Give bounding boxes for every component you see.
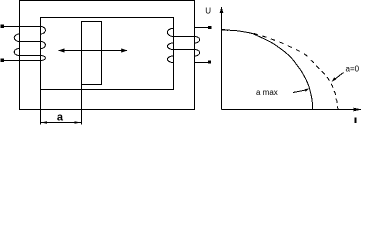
svg-text:a max: a max bbox=[256, 88, 278, 97]
coil L2 terminal lead bottom bbox=[195, 61, 209, 63]
label a max bbox=[256, 88, 278, 97]
core outer outline bbox=[20, 1, 195, 110]
curve a max (solid) bbox=[222, 30, 313, 109]
coil L2 back half-turns inner edge bbox=[167, 28, 173, 62]
svg-text:a: a bbox=[57, 112, 64, 124]
I axis bbox=[222, 108, 362, 112]
coil L1 terminal lead top bbox=[3, 26, 41, 28]
label I bbox=[355, 118, 357, 124]
curve a=0 (dashed) bbox=[254, 33, 339, 109]
U axis bbox=[220, 6, 224, 109]
movable shunt bar bbox=[82, 22, 102, 85]
pointer arrow to curve a max bbox=[293, 88, 309, 92]
dimension line a bbox=[41, 121, 82, 124]
svg-text:a=0: a=0 bbox=[346, 64, 360, 73]
coil L1 terminal square bottom bbox=[1, 58, 4, 62]
coil L2 front wires bbox=[173, 37, 194, 50]
coil L1 terminal lead bottom bbox=[3, 60, 41, 62]
core window (inner outline) bbox=[41, 18, 174, 90]
coil L1 back half-turns left edge bbox=[14, 34, 19, 56]
bar movement double arrow bbox=[58, 48, 127, 52]
dimension extension line at window edge bbox=[40, 90, 42, 125]
dimension extension line at bar edge bbox=[81, 84, 83, 125]
label a bbox=[57, 112, 64, 124]
coil L2 terminal lead top bbox=[195, 27, 209, 29]
coil L2 terminal square top bbox=[208, 26, 211, 29]
coil L1 front wires bbox=[19, 42, 40, 56]
coil L2 back half-turns outer edge bbox=[195, 37, 200, 57]
svg-text:U: U bbox=[205, 7, 211, 16]
label a=0 bbox=[346, 64, 360, 73]
label U bbox=[205, 7, 211, 16]
pointer arrow to curve a=0 bbox=[332, 73, 344, 82]
coil L1 back half-turns inner edge bbox=[41, 27, 46, 61]
coil L2 terminal square bottom bbox=[208, 60, 211, 63]
coil L1 terminal square top bbox=[1, 25, 4, 29]
